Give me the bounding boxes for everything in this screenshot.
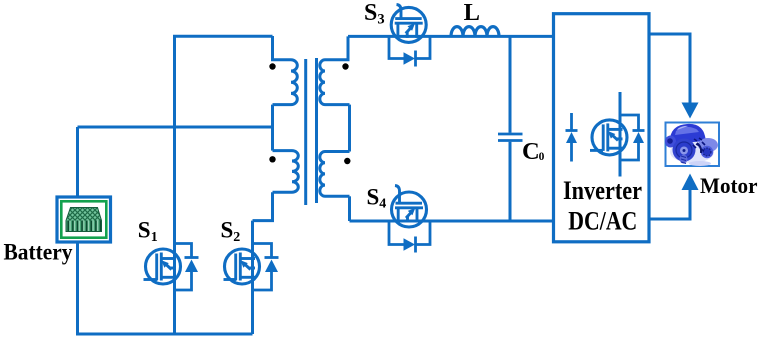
inverter switch leg wire bbox=[619, 92, 622, 177]
svg-text:L: L bbox=[464, 0, 480, 26]
transformer polarity dot secondary lower bbox=[344, 158, 350, 164]
transformer polarity dot primary upper bbox=[269, 63, 275, 69]
svg-text:S: S bbox=[367, 184, 380, 209]
svg-text:0: 0 bbox=[539, 151, 545, 163]
capacitor C0 bottom lead bbox=[509, 142, 512, 221]
transformer T1 secondary upper winding bbox=[320, 36, 350, 104]
svg-text:DC/AC: DC/AC bbox=[568, 206, 637, 236]
transformer polarity dot secondary upper bbox=[342, 63, 348, 69]
wire: inverter output bottom to motor bbox=[649, 190, 690, 220]
svg-text:C: C bbox=[522, 138, 540, 165]
transformer T1 primary upper winding bbox=[273, 36, 298, 105]
body diode D4 of S4 bbox=[389, 221, 430, 253]
capacitor C0 plates bbox=[498, 134, 523, 141]
body diode D3 of S3 bbox=[389, 36, 430, 66]
transformer T1 primary center link bbox=[271, 105, 274, 151]
MOSFET S3 bbox=[391, 7, 426, 42]
wire: center tap horizontal from battery plus bbox=[78, 126, 273, 129]
svg-text:Inverter: Inverter bbox=[563, 175, 642, 205]
transformer T1 secondary lower winding bbox=[320, 152, 350, 197]
inverter body diode loop bbox=[620, 115, 645, 160]
MOSFET S2 bbox=[225, 249, 260, 284]
svg-text:3: 3 bbox=[377, 12, 384, 28]
svg-text:S: S bbox=[138, 218, 151, 243]
transformer T1 secondary center link bbox=[348, 105, 351, 152]
wire: primary bottom to S2 bbox=[253, 192, 273, 220]
svg-text:Battery: Battery bbox=[4, 239, 73, 264]
svg-text:S: S bbox=[221, 218, 234, 243]
svg-text:1: 1 bbox=[151, 230, 158, 245]
arrow into motor bottom bbox=[682, 174, 699, 191]
wire: bottom right rail through S4 bbox=[350, 220, 554, 223]
MOSFET S1 bbox=[146, 249, 181, 284]
wire: inverter output top to motor bbox=[649, 34, 690, 103]
wire: battery vertical rail bbox=[76, 127, 79, 334]
svg-text:S: S bbox=[364, 0, 377, 26]
transformer T1 core bbox=[304, 59, 307, 205]
svg-text:2: 2 bbox=[233, 230, 240, 245]
svg-text:Motor: Motor bbox=[700, 173, 758, 198]
inverter freewheeling diode bbox=[566, 113, 578, 162]
svg-text:4: 4 bbox=[379, 197, 386, 212]
wire: bottom rail bbox=[76, 333, 253, 336]
body diode D1 of S1 bbox=[175, 244, 199, 291]
wire: secondary bottom to lower rail bbox=[348, 196, 351, 221]
battery icon bbox=[57, 197, 111, 242]
motor icon bbox=[665, 123, 719, 167]
inverter block box bbox=[554, 14, 650, 242]
arrow into motor top bbox=[682, 103, 699, 119]
wire: top loop horizontal to primary top bbox=[173, 35, 273, 38]
inverter MOSFET bbox=[592, 120, 627, 155]
body diode D2 of S2 bbox=[253, 244, 279, 291]
capacitor C0 top lead bbox=[509, 36, 512, 132]
MOSFET S4 bbox=[392, 192, 427, 227]
wire: S1 drain rail (vertical x=174.5 from top loop to bottom rail) bbox=[173, 36, 176, 334]
wire: S2 drain vertical bbox=[251, 221, 254, 334]
transformer T1 primary lower winding bbox=[273, 151, 299, 193]
wire: top rail through S3 and L bbox=[348, 35, 554, 38]
inductor L bbox=[451, 27, 499, 37]
transformer polarity dot primary lower bbox=[269, 156, 275, 162]
